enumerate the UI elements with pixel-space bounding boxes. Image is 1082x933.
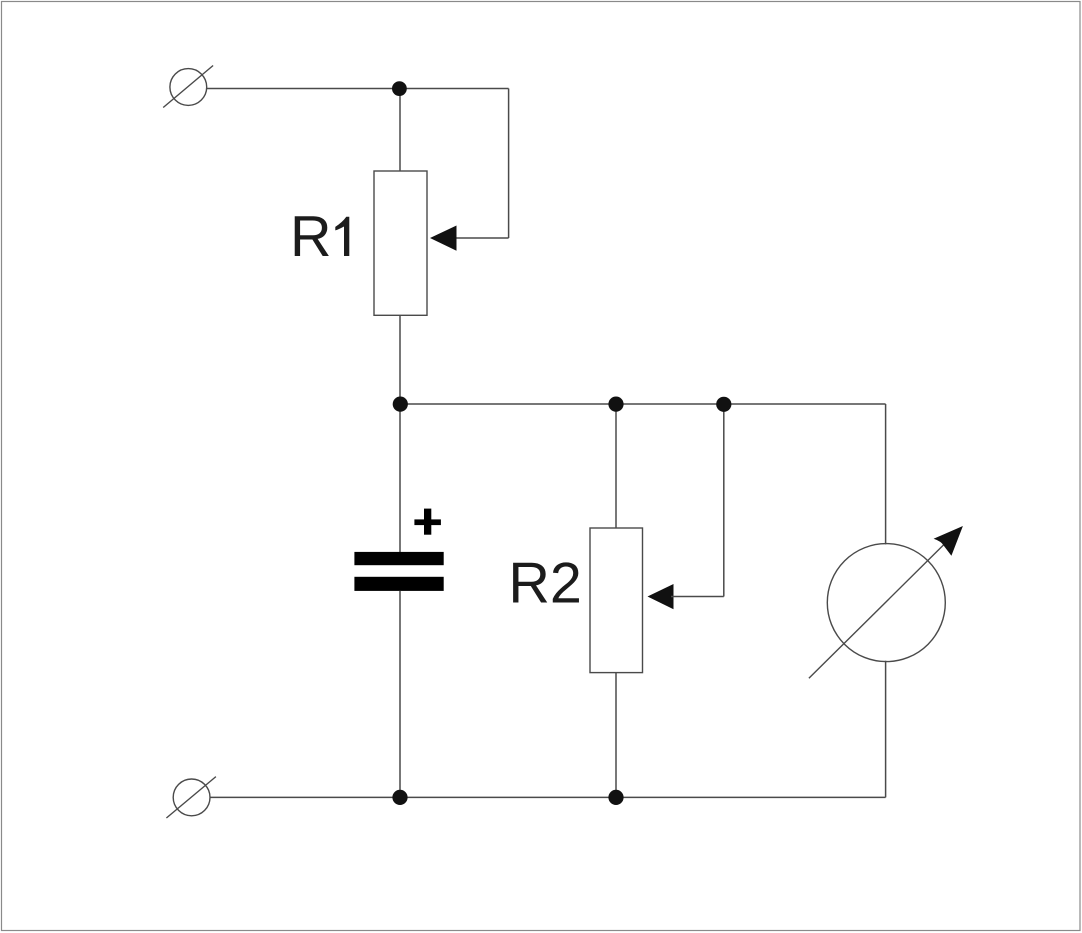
wire wiper loop vertical	[508, 89, 510, 239]
meter M1 adjustment arrow shaft	[809, 541, 948, 679]
wire R1 top lead	[399, 89, 401, 172]
wire wiper loop horizontal into R1 wiper	[454, 237, 509, 239]
capacitor C1 plates	[354, 552, 443, 591]
node B (junction dot mid left)	[393, 397, 408, 412]
wire R2 bottom lead	[615, 673, 617, 798]
wire capacitor top lead	[399, 404, 401, 552]
R2 wiper arrow	[648, 584, 674, 609]
node A (junction dot top)	[392, 81, 407, 96]
node C (junction dot mid centre)	[608, 397, 623, 412]
wire capacitor bottom lead	[399, 591, 401, 798]
node D (junction dot mid right)	[716, 397, 731, 412]
svg-text:R2: R2	[508, 552, 582, 616]
node E (junction dot bottom left)	[392, 790, 407, 805]
label R1	[290, 205, 349, 269]
wire R2 wiper vertical to node D	[723, 404, 725, 597]
node F (junction dot bottom centre)	[608, 790, 623, 805]
meter M1 body	[827, 544, 945, 662]
terminal T2 (bottom left)	[166, 777, 216, 818]
wire R2 wiper horizontal	[671, 596, 724, 598]
wire R1 bottom lead to node B	[399, 315, 401, 404]
wire middle bus	[400, 403, 886, 405]
wire meter bottom lead	[885, 661, 887, 798]
wire bottom bus	[210, 796, 886, 798]
wire top from T1 to node A	[207, 88, 400, 90]
resistor R1 (potentiometer body)	[374, 171, 427, 315]
wire R2 top lead	[615, 404, 617, 528]
terminal T1 (top left)	[163, 66, 213, 108]
resistor R2 (potentiometer body)	[590, 528, 643, 673]
meter M1 arrowhead	[934, 526, 963, 556]
svg-text:R: R	[290, 205, 332, 269]
capacitor C1 polarity plus	[414, 509, 441, 535]
wire from node A to wiper loop corner	[399, 88, 508, 90]
R1 wiper arrow	[430, 226, 457, 251]
wire meter top lead	[885, 404, 887, 544]
